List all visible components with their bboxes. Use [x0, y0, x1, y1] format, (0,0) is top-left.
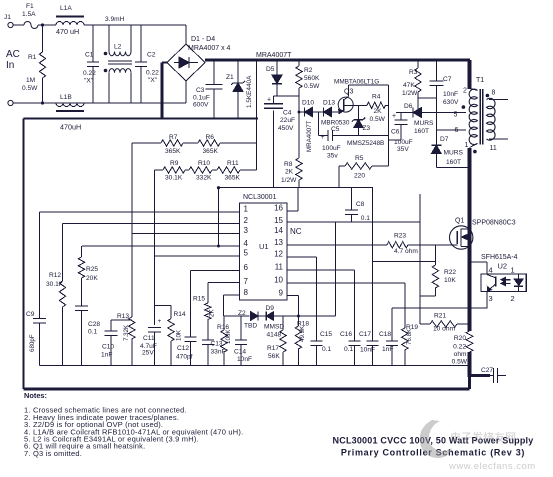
optocoupler U2 SFH615A-4 [470, 254, 527, 308]
svg-text:D13: D13 [323, 100, 335, 107]
svg-text:0.22: 0.22 [453, 344, 466, 351]
svg-text:MRA4007 x 4: MRA4007 x 4 [188, 45, 231, 52]
svg-text:D5: D5 [266, 66, 275, 73]
svg-text:35v: 35v [327, 153, 338, 160]
svg-text:2K: 2K [374, 108, 383, 115]
capacitor C18 1nF [379, 308, 398, 366]
svg-text:R9: R9 [170, 160, 179, 167]
wire R7 left vertical to pin3 and R13 [132, 143, 240, 317]
svg-text:"X": "X" [148, 77, 158, 84]
resistor R11 365K [212, 160, 257, 182]
connector J1 pin 2 and bottom wire [8, 81, 186, 106]
svg-text:16: 16 [274, 203, 283, 212]
svg-text:1nF: 1nF [382, 346, 393, 353]
svg-text:U2: U2 [498, 262, 508, 271]
inductor L1B 470uH [56, 94, 84, 132]
diode D7 MURS160T [431, 136, 469, 168]
svg-text:1/2W: 1/2W [281, 177, 297, 184]
svg-text:14: 14 [274, 226, 283, 235]
wire pin7 to R15 [208, 282, 240, 303]
wire pin1 to C9 [40, 212, 240, 318]
capacitor C17 10nF [359, 331, 379, 366]
svg-text:MMBTA06LT1G: MMBTA06LT1G [334, 79, 379, 86]
svg-text:365K: 365K [225, 175, 241, 182]
svg-text:8: 8 [244, 288, 249, 297]
wire pin8 to Z2 net [224, 295, 250, 316]
svg-text:J1: J1 [4, 14, 11, 21]
diode D6 MURS160T [396, 103, 466, 135]
svg-text:100uF: 100uF [394, 139, 413, 146]
svg-text:In: In [6, 60, 14, 71]
capacitor C14 10nF [234, 222, 336, 366]
diode D5 [266, 60, 282, 96]
resistor R8 2K 1/2W [281, 158, 302, 188]
resistor R15 2K [193, 296, 216, 341]
wire R3 C7 junction [418, 97, 436, 99]
resistor R7 365K [132, 134, 183, 155]
wire pin9 vertical [287, 296, 300, 318]
wire pin11 to C16 C17 [287, 270, 355, 341]
svg-text:1/2W: 1/2W [402, 90, 418, 97]
transformer T1 secondary winding [486, 90, 508, 153]
svg-text:1.5A: 1.5A [22, 11, 36, 18]
svg-text:Z2: Z2 [238, 310, 246, 317]
svg-text:L1A: L1A [60, 5, 72, 12]
IC U1 NCL30001 [240, 194, 302, 300]
svg-text:10 ohm: 10 ohm [433, 326, 456, 333]
resistor R12 30.1K [46, 272, 66, 366]
resistor R22 10K [420, 245, 457, 296]
capacitor C15 0.1 [311, 331, 333, 366]
svg-text:2K: 2K [209, 309, 216, 317]
transformer T1 core [480, 89, 483, 145]
svg-text:ohm: ohm [454, 351, 467, 358]
resistor R21 10 ohm [420, 312, 470, 332]
resistor R14 10K [155, 305, 186, 365]
svg-text:3: 3 [244, 226, 249, 235]
svg-text:13: 13 [274, 238, 283, 247]
svg-text:6: 6 [244, 263, 249, 272]
svg-text:R8: R8 [284, 161, 293, 168]
svg-text:0.22: 0.22 [83, 70, 96, 77]
diode D13 MBR0530 [321, 100, 350, 127]
svg-text:5: 5 [454, 112, 458, 119]
svg-text:0.1: 0.1 [322, 346, 331, 353]
svg-text:2K: 2K [285, 169, 294, 176]
capacitor C8 0.1 [345, 188, 370, 222]
svg-text:56K: 56K [268, 353, 280, 360]
svg-text:R25: R25 [86, 266, 98, 273]
fuse F1 1.5A [22, 3, 38, 29]
svg-text:0.5W: 0.5W [452, 359, 468, 366]
svg-text:R23: R23 [394, 233, 406, 240]
capacitor C4 22uF 450V [264, 96, 295, 188]
svg-text:Q1: Q1 [455, 218, 464, 225]
connector J1 pin 1 (AC line) [4, 14, 24, 28]
svg-text:1: 1 [511, 266, 515, 275]
svg-text:100K: 100K [225, 329, 232, 344]
svg-text:2: 2 [511, 294, 515, 303]
capacitor C11 4.7uF 25V [140, 318, 162, 366]
heavy bulk rail from bridge plus [205, 60, 470, 89]
resistor R19 76.8K [402, 324, 419, 366]
svg-text:10nF: 10nF [237, 356, 252, 363]
capacitor C27 [481, 367, 506, 383]
svg-text:11: 11 [275, 262, 284, 271]
svg-text:NCL30001: NCL30001 [243, 194, 277, 201]
wire pin15 horizontal [287, 221, 420, 223]
resistor R23 4.7 ohm [287, 233, 422, 256]
svg-text:D1 - D4: D1 - D4 [191, 36, 215, 43]
svg-text:C2: C2 [147, 52, 156, 59]
title text [333, 436, 534, 458]
svg-text:C16: C16 [340, 331, 352, 338]
svg-text:L1B: L1B [60, 94, 72, 101]
svg-text:450V: 450V [278, 125, 294, 132]
svg-text:9: 9 [279, 288, 284, 297]
svg-text:www.elecfans.com: www.elecfans.com [448, 461, 536, 472]
svg-text:D7: D7 [440, 136, 449, 143]
resistor R5 220 [339, 155, 389, 188]
svg-text:+: + [321, 134, 325, 141]
resistor R18 49.9K [295, 316, 309, 366]
svg-text:30.1K: 30.1K [165, 175, 183, 182]
svg-text:2: 2 [244, 216, 249, 225]
wire divider top vertical [256, 61, 258, 170]
svg-text:R3: R3 [409, 69, 418, 76]
svg-text:C3: C3 [196, 87, 205, 94]
svg-text:1M: 1M [26, 77, 35, 84]
svg-text:MMSD: MMSD [264, 324, 284, 331]
svg-text:R12: R12 [49, 272, 61, 279]
capacitor C5 100uF 35V [319, 112, 389, 160]
svg-text:MURS: MURS [444, 150, 464, 157]
svg-text:10K: 10K [176, 329, 183, 341]
svg-text:1: 1 [244, 205, 249, 214]
svg-text:U1: U1 [259, 242, 269, 251]
svg-text:10nF: 10nF [443, 91, 458, 98]
svg-text:365K: 365K [165, 148, 181, 155]
capacitor C13 33nF [202, 340, 226, 366]
svg-text:SFH615A-4: SFH615A-4 [481, 254, 518, 261]
svg-text:R10: R10 [198, 160, 210, 167]
transformer T1 primary winding [436, 77, 484, 153]
svg-text:1.5KE440A: 1.5KE440A [246, 75, 253, 108]
svg-text:0.5W: 0.5W [304, 83, 320, 90]
svg-text:4.7 ohm: 4.7 ohm [394, 248, 418, 255]
capacitor C1 0.22 X [83, 25, 99, 103]
svg-text:11: 11 [490, 145, 497, 152]
svg-text:470pf: 470pf [176, 354, 193, 361]
heavy bottom border [24, 388, 470, 391]
common mode choke L2 3.9mH [104, 16, 132, 103]
svg-text:R7: R7 [169, 134, 178, 141]
wire pin5 to C11 [155, 255, 240, 257]
resistor R16 100K [217, 316, 232, 366]
svg-text:560K: 560K [304, 75, 320, 82]
capacitor C12 470pf [176, 337, 197, 366]
svg-text:365K: 365K [203, 148, 219, 155]
svg-text:Q3: Q3 [344, 89, 353, 96]
svg-text:R11: R11 [227, 160, 239, 167]
wire pin12 to C15 [287, 257, 317, 341]
svg-text:49.9K: 49.9K [299, 325, 306, 342]
svg-text:C8: C8 [356, 201, 365, 208]
capacitor C10 1nF [101, 320, 132, 366]
svg-text:R15: R15 [193, 296, 205, 303]
capacitor C6 100uF 35V [389, 113, 413, 153]
svg-text:470 uH: 470 uH [56, 27, 79, 36]
svg-text:10nF: 10nF [360, 347, 375, 354]
svg-text:5: 5 [244, 249, 249, 258]
resistor R1 1M 0.5W [22, 25, 46, 105]
svg-text:R2: R2 [304, 67, 313, 74]
svg-text:8: 8 [492, 90, 496, 97]
svg-text:+: + [392, 113, 396, 120]
svg-text:4: 4 [489, 266, 493, 275]
component ground rail [40, 365, 470, 367]
svg-text:NC: NC [290, 227, 302, 236]
resistor R20 0.22 ohm 0.5W [452, 331, 473, 366]
svg-text:C12: C12 [177, 345, 189, 352]
svg-text:0.22: 0.22 [146, 70, 159, 77]
svg-text:R21: R21 [434, 312, 446, 319]
svg-text:1nF: 1nF [101, 352, 112, 359]
svg-text:160T: 160T [414, 128, 429, 135]
svg-text:0.5W: 0.5W [22, 85, 38, 92]
bridge rectifier D1-D4 MRA4007 x 4 [167, 36, 231, 81]
svg-text:R4: R4 [372, 94, 381, 101]
resistor R3 47K 1/2W [402, 60, 421, 113]
svg-text:C28: C28 [88, 321, 100, 328]
capacitor C9 680pF [26, 311, 46, 366]
resistor R13 7.32K [117, 313, 135, 366]
svg-text:C18: C18 [379, 331, 391, 338]
svg-text:TBD: TBD [244, 323, 257, 330]
svg-text:4: 4 [244, 239, 249, 248]
watermark logo [420, 420, 536, 472]
svg-text:Z3: Z3 [363, 125, 371, 132]
svg-text:33nF: 33nF [211, 349, 226, 356]
svg-text:电子发烧友网: 电子发烧友网 [450, 430, 516, 444]
svg-text:R13: R13 [117, 313, 129, 320]
svg-text:C1: C1 [85, 52, 94, 59]
capacitor C7 10nF 630V [429, 60, 459, 145]
svg-text:T1: T1 [476, 77, 484, 84]
svg-text:MMSZ5248B: MMSZ5248B [347, 140, 384, 147]
capacitor C16 0.1 [340, 331, 361, 366]
svg-text:470uH: 470uH [60, 123, 81, 132]
svg-text:10K: 10K [444, 277, 456, 284]
svg-text:3: 3 [489, 294, 493, 303]
svg-text:C6: C6 [391, 129, 400, 136]
zener Z2 TBD [238, 310, 266, 330]
svg-text:R5: R5 [355, 155, 364, 162]
svg-text:15: 15 [274, 216, 283, 225]
svg-text:+: + [158, 318, 162, 325]
resistor R4 2K 0.5W [367, 94, 389, 124]
svg-text:0.1uF: 0.1uF [193, 95, 210, 102]
svg-text:0.1: 0.1 [361, 215, 370, 222]
svg-text:1: 1 [465, 142, 469, 149]
svg-text:22uF: 22uF [280, 117, 295, 124]
svg-text:2: 2 [463, 88, 467, 95]
svg-text:C4: C4 [283, 110, 292, 117]
svg-text:R1: R1 [28, 54, 37, 61]
inductor L1A 470uH [56, 5, 84, 36]
mosfet Q1 SPP08N80C3 [422, 218, 516, 250]
wire net pin4 pin16 [82, 186, 435, 341]
svg-text:R14: R14 [174, 311, 186, 318]
svg-text:160T: 160T [446, 159, 461, 166]
zener Z1 1.5KE440A [226, 60, 253, 119]
svg-text:D9: D9 [266, 305, 275, 312]
svg-text:0.1: 0.1 [344, 346, 353, 353]
svg-text:680pF: 680pF [29, 334, 36, 352]
svg-text:"X": "X" [84, 78, 94, 85]
svg-text:332K: 332K [196, 175, 212, 182]
wire R9 left vertical to C11 [154, 170, 156, 325]
svg-text:D10: D10 [302, 100, 314, 107]
resistor R2 560K 0.5W [274, 60, 321, 158]
svg-text:76.8K: 76.8K [406, 328, 413, 345]
svg-text:C9: C9 [26, 311, 35, 318]
svg-text:MRA4007T: MRA4007T [306, 120, 313, 152]
svg-text:100uF: 100uF [322, 145, 341, 152]
svg-text:47K: 47K [403, 82, 415, 89]
svg-text:R20: R20 [454, 335, 466, 342]
heavy line segment y118 [162, 117, 258, 119]
svg-text:D6: D6 [404, 103, 413, 110]
svg-text:0.5W: 0.5W [370, 116, 386, 123]
svg-text:25V: 25V [142, 350, 154, 357]
resistor R10 332K [185, 160, 212, 182]
svg-text:C15: C15 [320, 331, 332, 338]
wire L1A to bridge top [84, 25, 186, 44]
svg-text:R22: R22 [444, 269, 456, 276]
svg-text:F1: F1 [26, 3, 34, 10]
svg-text:C10: C10 [102, 344, 114, 351]
svg-text:AC: AC [6, 49, 20, 60]
transistor Q3 MMBTA06LT1G [334, 79, 389, 167]
svg-text:12: 12 [274, 250, 283, 259]
svg-text:6: 6 [455, 127, 459, 134]
capacitor C28 0.1 [75, 306, 100, 366]
diode D10 MRA4007T [302, 100, 324, 153]
svg-text:C14: C14 [234, 349, 246, 356]
svg-text:L2: L2 [114, 44, 122, 51]
svg-text:35V: 35V [397, 146, 409, 153]
svg-text:30.1K: 30.1K [46, 281, 64, 288]
notes list [24, 406, 243, 458]
svg-text:20K: 20K [86, 275, 98, 282]
resistor R25 20K [78, 246, 98, 306]
wire pin2 to R12 [63, 224, 240, 281]
svg-text:7: 7 [244, 277, 249, 286]
svg-text:C27: C27 [481, 367, 493, 374]
svg-text:R17: R17 [267, 345, 279, 352]
resistor R6 365K [183, 134, 257, 155]
svg-text:7. Q3 is omitted.: 7. Q3 is omitted. [24, 449, 82, 458]
zener Z3 MMSZ5248B [347, 105, 384, 147]
svg-text:+: + [267, 97, 271, 104]
svg-text:R6: R6 [206, 134, 215, 141]
svg-text:C11: C11 [143, 335, 155, 342]
svg-text:Z1: Z1 [226, 74, 234, 81]
svg-text:C5: C5 [331, 126, 340, 133]
resistor R9 30.1K [155, 160, 186, 182]
svg-text:C7: C7 [443, 76, 452, 83]
svg-text:0.1: 0.1 [88, 329, 97, 336]
svg-text:600V: 600V [193, 102, 209, 109]
capacitor C3 0.1uF 600V [193, 60, 223, 119]
svg-text:Notes:: Notes: [24, 391, 47, 400]
svg-text:10: 10 [274, 275, 283, 284]
svg-text:SPP08N80C3: SPP08N80C3 [472, 220, 516, 227]
wire C4 node to D10 [298, 111, 305, 114]
svg-text:MRA4007T: MRA4007T [256, 52, 292, 59]
svg-text:MURS: MURS [414, 120, 434, 127]
svg-text:C17: C17 [359, 331, 371, 338]
wire pin6 branch [191, 271, 240, 337]
wire pin15 net vertical [419, 222, 421, 324]
heavy power trace bridge minus to left border [24, 63, 168, 390]
resistor R17 56K [267, 316, 286, 366]
svg-text:220: 220 [354, 173, 365, 180]
wire pin10 to R19 [287, 283, 405, 328]
diode D9 MMSD4148 [264, 305, 336, 339]
svg-text:3.9mH: 3.9mH [105, 16, 125, 23]
svg-text:7.32K: 7.32K [123, 324, 130, 341]
svg-text:630V: 630V [443, 99, 459, 106]
label AC In [6, 49, 20, 71]
wire U2 pin3 to C18 [392, 307, 488, 309]
svg-text:4148: 4148 [267, 332, 282, 339]
wire fuse to L1A with node A [38, 23, 56, 26]
capacitor C2 0.22 X [135, 25, 159, 103]
heavy drain trace pin1 to Q1 and R20 [470, 148, 491, 389]
